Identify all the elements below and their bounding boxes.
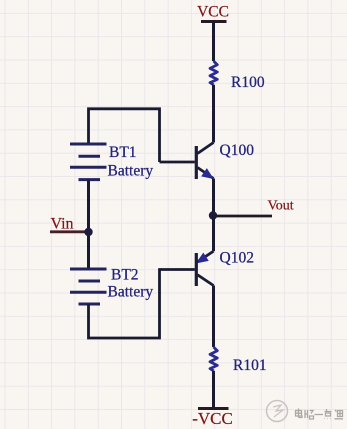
svg-text:BT1: BT1 [109,144,137,161]
wire Vout stub [214,215,273,218]
transistor Q102 collector lead [198,275,214,286]
wire Vin stub [50,230,89,233]
svg-text:-VCC: -VCC [192,409,233,428]
power port -VCC bar [198,407,229,410]
transistor Q102 base bar [195,253,198,286]
svg-text:Battery: Battery [108,163,154,180]
wire R101 to -VCC [212,371,215,409]
transistor Q102 emitter arrow [197,254,208,263]
watermark text (电路一点通 drawn as strokes) [296,409,344,420]
resistor R100 [210,61,217,85]
resistor R101 [210,347,217,371]
wire Q102 base [158,268,195,271]
node output junction dot [209,211,217,219]
watermark icon circle [267,401,288,422]
wire output node to Q102 emitter [212,216,215,252]
transistor Q102 emitter lead [198,251,214,262]
power port VCC bar [201,20,227,23]
battery BT1 plate long [70,166,107,169]
svg-text:Q102: Q102 [220,249,254,266]
wire BT1 to BT2 [87,180,90,269]
svg-text:VCC: VCC [197,4,229,21]
transistor Q100 collector lead [198,143,214,154]
svg-text:BT2: BT2 [111,267,139,284]
battery BT1 plate short bottom [79,178,101,181]
wire Q100 emitter to output node [212,179,215,217]
battery BT1 plate short [79,155,101,158]
wire VCC to R100 [212,22,215,62]
svg-text:Q100: Q100 [220,142,255,159]
svg-text:R100: R100 [231,74,265,91]
node Vin junction dot [84,228,92,236]
battery BT2 plate short bottom [79,303,101,306]
wire Q102 collector to R101 [212,286,215,348]
battery BT2 plate long top [70,268,107,271]
wire Q100 base [160,161,195,164]
wire BT2 bottom loop to Q102 base [89,270,160,339]
watermark icon glyph [273,405,283,417]
wire R100 to Q100 collector [212,85,215,143]
wire BT1 top loop to Q100 base [89,109,160,162]
battery BT2 plate long [70,291,107,294]
svg-text:Battery: Battery [108,284,154,301]
battery BT2 plate short [79,280,101,283]
svg-text:Vin: Vin [51,216,74,233]
svg-text:Vout: Vout [268,199,294,214]
transistor Q100 base bar [195,146,198,179]
transistor Q100 emitter arrow [202,169,213,178]
svg-text:R101: R101 [233,357,267,374]
transistor Q100 emitter lead [198,168,214,179]
battery BT1 plate long top [70,143,107,146]
